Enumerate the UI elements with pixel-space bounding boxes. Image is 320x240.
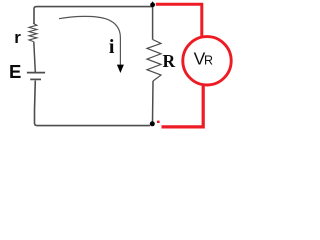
wire: middle rail lower, resistor R to bottom node bbox=[152, 81, 155, 122]
wire: middle rail upper, top node to resistor R bbox=[152, 5, 154, 40]
resistor r (zigzag) bbox=[29, 24, 37, 42]
svg-text:r: r bbox=[14, 28, 21, 47]
svg-text:R: R bbox=[204, 54, 213, 68]
svg-text:E: E bbox=[9, 61, 21, 82]
node: bottom junction bbox=[150, 121, 155, 126]
voltmeter VR: red circle bbox=[183, 37, 231, 85]
svg-text:R: R bbox=[163, 51, 176, 71]
battery E: long top plate bbox=[27, 72, 45, 74]
wire: r to battery top plate bbox=[34, 42, 36, 72]
current arrow i: curved arc bbox=[59, 16, 120, 65]
node: top junction bbox=[150, 2, 155, 7]
wire: battery to bottom-left corner to bottom node bbox=[35, 81, 151, 126]
svg-text:i: i bbox=[109, 36, 115, 58]
wire: top wire from top-left corner to top node bbox=[34, 7, 152, 24]
resistor R (zigzag) bbox=[147, 40, 161, 82]
red wire: voltmeter to bottom wire bbox=[162, 84, 204, 127]
red wire: top node to voltmeter bbox=[156, 4, 202, 37]
red wire: stub dot near bottom node bbox=[157, 121, 160, 123]
current arrow i: arrowhead bbox=[117, 65, 124, 73]
battery E: short bottom plate bbox=[30, 78, 41, 80]
